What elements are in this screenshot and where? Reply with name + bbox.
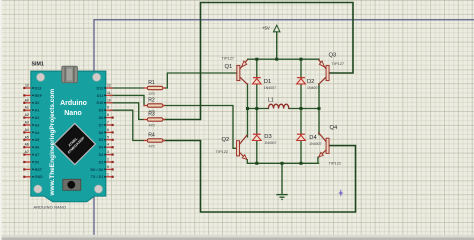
right pin D8 stub — [106, 117, 113, 119]
inductor L1 — [268, 97, 289, 108]
svg-text:Nano: Nano — [64, 110, 82, 117]
svg-text:8: 8 — [107, 113, 109, 117]
wire D9 down to R4 — [110, 110, 144, 140]
svg-text:Q4: Q4 — [330, 125, 339, 131]
left pin A4 stub — [24, 131, 31, 133]
svg-text:TIP127: TIP127 — [332, 61, 345, 66]
Arduino Nano SIM1 module body — [31, 66, 106, 202]
svg-text:470: 470 — [149, 145, 155, 149]
mounting holes — [37, 73, 45, 81]
wire left bridge rail (Q1 collector to Q2 collector) — [247, 84, 249, 137]
left pin D13 stub — [24, 87, 31, 89]
left pin A5 stub — [24, 139, 31, 141]
left pin A0 stub — [24, 102, 31, 104]
svg-text:R1: R1 — [148, 80, 155, 86]
svg-text:D2: D2 — [99, 160, 104, 164]
left pin A1 stub — [24, 109, 31, 111]
wire R4 around bottom to Q4 base — [165, 141, 356, 213]
svg-text:2: 2 — [107, 158, 109, 162]
junction +5V tap — [275, 58, 278, 61]
svg-text:A3: A3 — [35, 123, 40, 127]
wire R1 to Q1 base — [165, 73, 237, 88]
left pin A7 stub — [24, 154, 31, 156]
+5V power symbol arrow — [274, 25, 280, 32]
svg-text:A4: A4 — [24, 128, 28, 132]
svg-text:12: 12 — [107, 84, 111, 88]
wire D12 to R1 — [110, 87, 144, 89]
right pin D3 stub — [106, 154, 113, 156]
resistor R4 470 — [144, 133, 166, 149]
wire D10 down to R3 — [110, 103, 144, 120]
junction D2-D4 / mid rail — [300, 107, 303, 110]
right pin D7 stub — [106, 124, 113, 126]
wire mid rail right of L1 — [289, 108, 319, 110]
resistor R3 470 — [144, 112, 166, 128]
junction D2 top / +5V rail — [300, 58, 303, 61]
svg-text:D3: D3 — [99, 153, 104, 157]
svg-text:D9: D9 — [99, 109, 104, 113]
svg-text:D12: D12 — [97, 86, 104, 90]
svg-text:7: 7 — [107, 121, 109, 125]
right pin RX / D0 stub — [106, 168, 113, 170]
left pin GND stub — [24, 176, 31, 178]
svg-text:3: 3 — [107, 150, 109, 154]
diode D2 1N4007 — [297, 78, 320, 91]
svg-text:GND: GND — [35, 175, 44, 179]
svg-text:1N4007: 1N4007 — [307, 86, 319, 90]
right pin TX / D1 stub — [106, 176, 113, 178]
diode D1 1N4007 — [253, 78, 277, 91]
diode D3 1N4007 — [253, 134, 277, 145]
right pin D11 stub — [106, 94, 113, 96]
svg-text:TIP122: TIP122 — [329, 160, 342, 165]
junction D1-D3 / mid rail — [255, 107, 258, 110]
right pin D12 stub — [106, 87, 113, 89]
svg-text:Q2: Q2 — [222, 137, 230, 143]
ATMEL ATMEGA328P diamond — [54, 123, 95, 164]
svg-text:D10: D10 — [97, 101, 104, 105]
svg-text:RX / D0: RX / D0 — [90, 168, 103, 172]
svg-text:1: 1 — [107, 172, 109, 176]
wire right bridge rail (Q3 collector to Q4 collector) — [318, 84, 320, 135]
right pin D6 stub — [106, 131, 113, 133]
svg-text:A2: A2 — [24, 113, 28, 117]
bottom window strip — [0, 237, 474, 240]
transistor Q4 TIP122 (NPN) — [318, 125, 341, 166]
svg-text:D8: D8 — [99, 116, 104, 120]
svg-text:9: 9 — [107, 106, 109, 110]
left pin REF stub — [24, 94, 31, 96]
wire R2 to Q2 base — [165, 106, 237, 149]
svg-text:1N4007: 1N4007 — [264, 141, 276, 145]
svg-text:11: 11 — [107, 91, 111, 95]
left pin A2 stub — [24, 117, 31, 119]
wire Q4 emitter stub — [317, 157, 319, 163]
svg-text:A1: A1 — [35, 109, 40, 113]
sheet border (page edge) — [94, 20, 474, 240]
resistor R1 470 — [144, 80, 166, 96]
svg-text:A5: A5 — [35, 138, 40, 142]
junction D1 top / +5V rail — [255, 58, 258, 61]
USB connector — [62, 66, 78, 82]
junction left rail / mid rail — [246, 107, 249, 110]
svg-text:RST: RST — [35, 168, 43, 172]
svg-text:A5: A5 — [24, 135, 28, 139]
svg-text:D3: D3 — [264, 134, 271, 140]
svg-text:D6: D6 — [99, 131, 104, 135]
svg-text:A6: A6 — [24, 143, 28, 147]
wire D2-D4 column — [300, 59, 302, 163]
svg-text:5: 5 — [107, 135, 109, 139]
svg-text:A7: A7 — [24, 150, 28, 154]
svg-text:A2: A2 — [35, 116, 40, 120]
svg-text:A0: A0 — [24, 98, 28, 102]
transistor Q1 TIP127 (PNP) — [222, 56, 248, 85]
svg-text:+5V: +5V — [262, 25, 270, 30]
svg-text:D5: D5 — [99, 138, 104, 142]
svg-text:10: 10 — [107, 98, 111, 102]
svg-text:13: 13 — [25, 84, 29, 88]
svg-text:ARDUINO NANO: ARDUINO NANO — [34, 204, 67, 209]
svg-text:L1: L1 — [268, 97, 274, 103]
transistor Q2 TIP122 (NPN) — [216, 135, 248, 160]
svg-text:D11: D11 — [97, 94, 104, 98]
wire ground stem — [281, 163, 283, 194]
svg-text:A6: A6 — [35, 146, 40, 150]
svg-text:0: 0 — [107, 165, 109, 169]
svg-text:D2: D2 — [307, 79, 314, 85]
svg-text:A0: A0 — [35, 101, 40, 105]
junction D3 bottom / ground rail — [255, 162, 258, 165]
origin marker (blue diamond) — [338, 189, 343, 197]
svg-text:6: 6 — [107, 128, 109, 132]
right pin D9 stub — [106, 109, 113, 111]
crystal/oscillator block — [63, 179, 81, 190]
svg-text:5V: 5V — [35, 160, 40, 164]
sheet border dark core — [94, 20, 474, 240]
svg-text:470: 470 — [149, 124, 155, 128]
right pin D2 stub — [106, 161, 113, 163]
junction D4 bottom / ground rail — [300, 162, 303, 165]
svg-text:4: 4 — [107, 143, 109, 147]
svg-text:R4: R4 — [148, 133, 155, 139]
svg-text:TIP127: TIP127 — [222, 56, 235, 61]
svg-text:R3: R3 — [148, 112, 155, 118]
left pin RST stub — [24, 168, 31, 170]
ground symbol — [276, 195, 287, 200]
svg-text:TX / D1: TX / D1 — [91, 175, 104, 179]
wire +5V top rail — [248, 58, 319, 60]
left window strip — [0, 0, 2, 240]
svg-text:D7: D7 — [99, 123, 104, 127]
svg-text:www.TheEngineeringProjects.com: www.TheEngineeringProjects.com — [49, 89, 56, 197]
svg-text:SIM1: SIM1 — [32, 62, 44, 68]
svg-text:D1: D1 — [264, 79, 271, 85]
wire +5V stem — [276, 32, 278, 59]
svg-text:1N4007: 1N4007 — [264, 86, 276, 90]
svg-text:1N4007: 1N4007 — [309, 142, 321, 146]
wire bottom emitter rail — [248, 162, 319, 164]
wire D1-D3 column — [256, 59, 258, 163]
left pin A6 stub — [24, 146, 31, 148]
svg-text:TIP122: TIP122 — [216, 149, 229, 154]
svg-text:Q3: Q3 — [329, 52, 337, 58]
left pin 5V stub — [24, 161, 31, 163]
transistor Q3 TIP127 (PNP) — [318, 52, 344, 84]
svg-text:D4: D4 — [309, 135, 317, 141]
wire R3 over top loop to Q3 base — [165, 3, 354, 120]
diode D4 1N4007 — [297, 134, 322, 146]
right pin D4 stub — [106, 146, 113, 148]
left pin A3 stub — [24, 124, 31, 126]
svg-text:A1: A1 — [24, 106, 28, 110]
svg-text:A7: A7 — [35, 153, 40, 157]
svg-text:Arduino: Arduino — [60, 100, 87, 107]
junction ground tap — [281, 162, 284, 165]
right pin D5 stub — [106, 139, 113, 141]
right pin D10 stub — [106, 102, 113, 104]
svg-text:D13: D13 — [35, 86, 42, 90]
svg-text:A3: A3 — [24, 121, 28, 125]
resistor R2 470 — [144, 98, 166, 114]
junction mid rail / right rail — [318, 107, 321, 110]
wire Q2 emitter stub — [246, 160, 248, 163]
svg-text:470: 470 — [149, 92, 155, 96]
wire mid rail left of L1 — [248, 108, 269, 110]
svg-text:REF: REF — [35, 94, 43, 98]
svg-text:Q1: Q1 — [225, 64, 233, 70]
wire D11 down to R2 — [110, 95, 144, 105]
svg-text:R2: R2 — [148, 98, 155, 104]
